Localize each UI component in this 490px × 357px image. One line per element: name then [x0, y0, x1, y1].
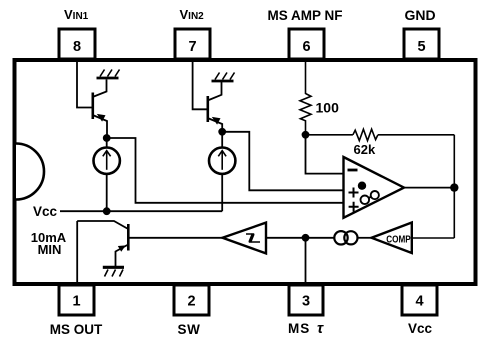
- svg-text:MIN: MIN: [38, 242, 62, 257]
- svg-text:GND: GND: [404, 7, 435, 23]
- svg-text:1: 1: [72, 294, 80, 310]
- chassis ground CH3: [103, 267, 124, 276]
- wire pin8 to Q1 base: [77, 60, 92, 108]
- node dot Vcc/CS1: [103, 207, 111, 215]
- schmitt trigger A1: [223, 223, 267, 254]
- svg-text:SW: SW: [178, 322, 201, 337]
- wire schmitt to Q3 base: [129, 237, 223, 239]
- pin 7 box: [175, 29, 210, 59]
- wire op-amp output: [404, 187, 454, 189]
- IC body outline: [15, 60, 476, 284]
- wire dot3 to R2: [306, 134, 353, 136]
- current source CS1: [94, 138, 120, 211]
- wire Q3 collector to pin 1: [76, 221, 78, 285]
- svg-text:7: 7: [188, 39, 196, 55]
- transistor Q2: [208, 82, 222, 129]
- pin 3 box: [289, 285, 323, 315]
- wire pin7 to Q2 base: [193, 60, 207, 109]
- svg-text:MS OUT: MS OUT: [50, 322, 103, 337]
- pin 5 box: [404, 29, 439, 59]
- svg-text:COMP: COMP: [386, 235, 411, 246]
- wire dot3 to op-amp minus input: [306, 135, 344, 174]
- svg-text:MS: MS: [288, 321, 310, 336]
- node dot1 (Q1 emitter): [103, 134, 111, 142]
- node dot4 (output): [450, 183, 458, 191]
- svg-text:4: 4: [415, 294, 423, 310]
- node dot2 (Q2 emitter): [218, 128, 226, 136]
- svg-text:τ: τ: [317, 320, 324, 337]
- chassis ground CH1: [97, 70, 120, 79]
- svg-text:62k: 62k: [354, 142, 376, 157]
- package notch: [16, 144, 44, 200]
- current mirror M1 (double circle): [334, 231, 357, 244]
- current source CS2: [209, 132, 235, 211]
- pin 8 box: [59, 29, 95, 59]
- wire feedback vertical: [453, 135, 455, 238]
- node dot3 (feedback): [302, 131, 310, 139]
- svg-text:3: 3: [302, 294, 310, 310]
- node dot5: [302, 234, 310, 242]
- svg-text:MS AMP NF: MS AMP NF: [267, 8, 342, 23]
- wire mirror to dot5: [306, 237, 335, 239]
- transistor Q3: [77, 221, 128, 266]
- wire output down to COMP: [412, 237, 455, 239]
- transistor Q1: [93, 80, 107, 136]
- wire dot5 to pin 3: [305, 238, 307, 285]
- wire dot5 to schmitt: [266, 237, 306, 239]
- wire Vcc rail: [60, 210, 222, 212]
- pin 4 box: [402, 285, 437, 315]
- wire R2 to feedback corner: [378, 134, 454, 136]
- wire COMP to mirror: [358, 237, 372, 239]
- svg-text:8: 8: [73, 39, 81, 55]
- svg-text:2: 2: [187, 294, 195, 310]
- pin 1 box: [59, 285, 94, 315]
- op-amp U1: [344, 157, 405, 218]
- wire dot2 to op-amp +mid input: [222, 132, 343, 191]
- resistor R2 62k: [353, 129, 378, 140]
- resistor R1 100: [300, 94, 311, 135]
- wire pin6: [305, 60, 307, 94]
- svg-text:Vcc: Vcc: [408, 321, 433, 336]
- svg-text:5: 5: [417, 39, 425, 55]
- chassis ground CH2: [212, 73, 235, 82]
- wire dot1 to op-amp +bottom input: [107, 138, 344, 203]
- svg-text:6: 6: [302, 39, 310, 55]
- svg-text:100: 100: [316, 100, 340, 116]
- pin 2 box: [174, 285, 209, 315]
- comparator COMP: [372, 223, 412, 254]
- svg-text:Vcc: Vcc: [33, 204, 58, 219]
- pin 6 box: [289, 29, 324, 59]
